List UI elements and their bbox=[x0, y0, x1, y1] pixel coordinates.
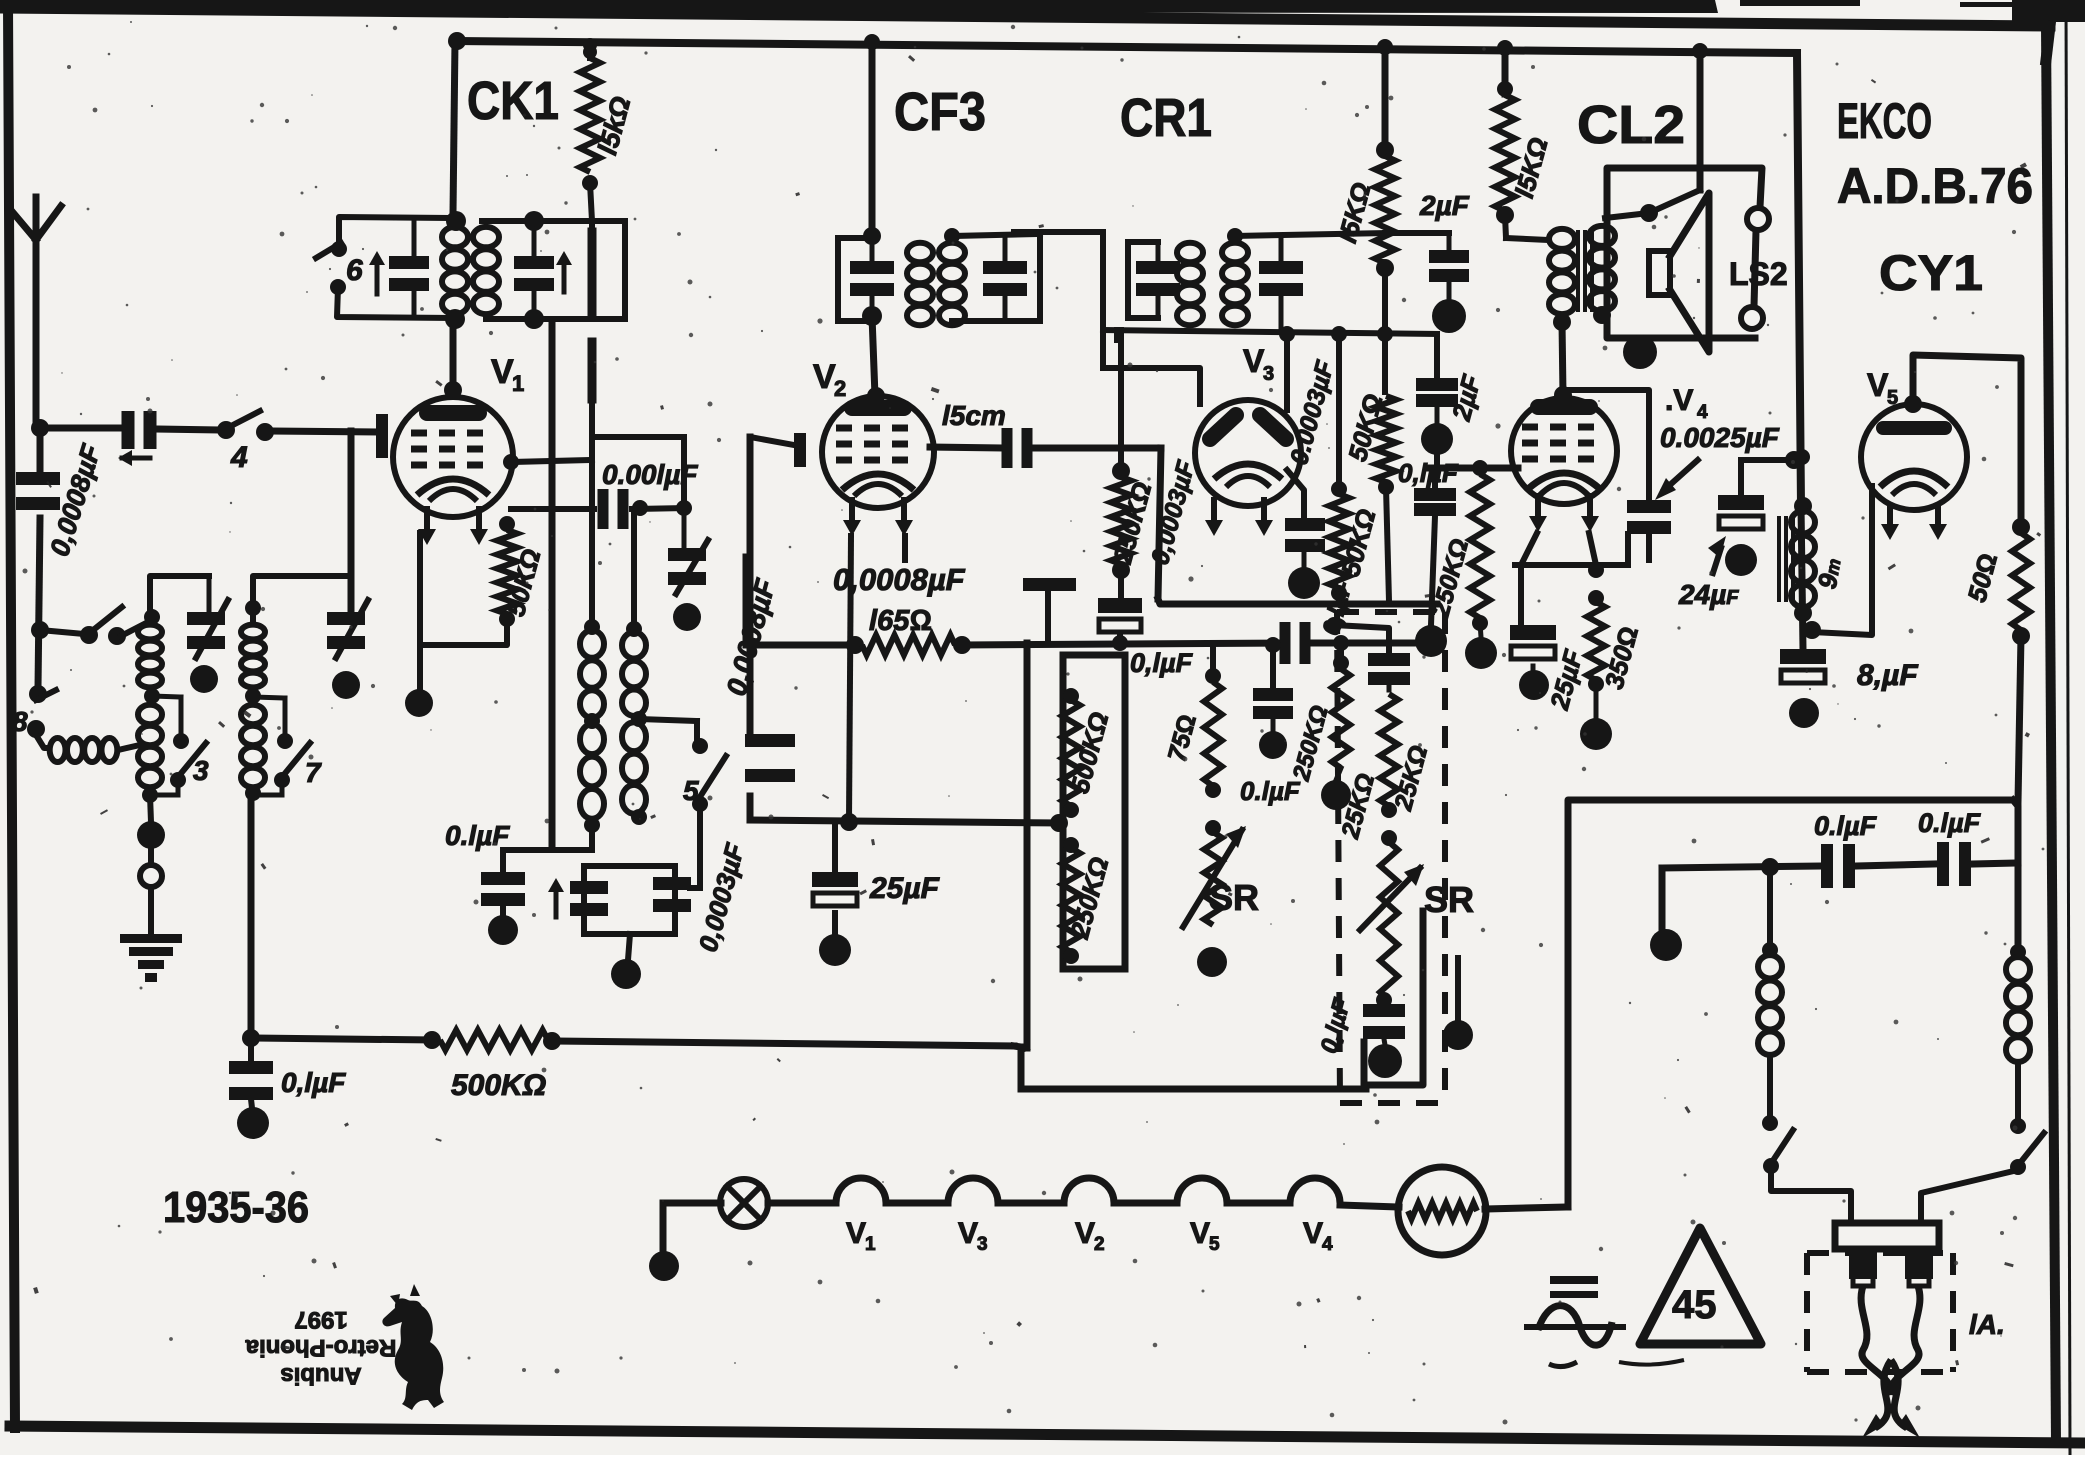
svg-text:lA.: lA. bbox=[1969, 1309, 2005, 1340]
svg-text:Anubis: Anubis bbox=[280, 1362, 361, 1389]
svg-text:2µF: 2µF bbox=[1419, 190, 1470, 221]
svg-text:2: 2 bbox=[1094, 1234, 1105, 1255]
svg-text:0,lµF: 0,lµF bbox=[1398, 458, 1459, 488]
svg-text:0.lµF: 0.lµF bbox=[445, 820, 510, 851]
svg-text:CL2: CL2 bbox=[1577, 95, 1685, 155]
svg-text:SR: SR bbox=[1209, 877, 1259, 918]
svg-text:EKCO: EKCO bbox=[1837, 93, 1932, 149]
svg-text:500KΩ: 500KΩ bbox=[451, 1069, 546, 1102]
svg-text:25µF: 25µF bbox=[869, 872, 940, 905]
svg-text:1935-36: 1935-36 bbox=[163, 1183, 309, 1232]
svg-text:LS2: LS2 bbox=[1729, 256, 1788, 292]
svg-text:4: 4 bbox=[1697, 402, 1708, 423]
svg-text:8,µF: 8,µF bbox=[1857, 659, 1918, 692]
svg-text:l5cm: l5cm bbox=[942, 400, 1006, 431]
svg-text:CR1: CR1 bbox=[1120, 88, 1212, 148]
svg-text:0,0008µF: 0,0008µF bbox=[833, 562, 966, 597]
svg-text:3: 3 bbox=[193, 755, 209, 786]
svg-text:CY1: CY1 bbox=[1879, 245, 1983, 301]
svg-text:5: 5 bbox=[683, 775, 699, 806]
svg-text:1997: 1997 bbox=[294, 1306, 347, 1333]
svg-text:.V: .V bbox=[1665, 384, 1693, 417]
svg-text:6: 6 bbox=[346, 254, 363, 287]
svg-text:V: V bbox=[1243, 343, 1265, 379]
svg-text:CK1: CK1 bbox=[467, 71, 559, 131]
svg-text:0,lµF: 0,lµF bbox=[1130, 648, 1194, 678]
svg-text:V: V bbox=[813, 358, 836, 396]
svg-text:0.lµF: 0.lµF bbox=[1240, 776, 1301, 806]
svg-text:1: 1 bbox=[512, 371, 524, 396]
svg-text:CF3: CF3 bbox=[894, 82, 986, 142]
svg-text:0,lµF: 0,lµF bbox=[281, 1067, 346, 1098]
svg-text:8: 8 bbox=[12, 706, 28, 737]
svg-text:SR: SR bbox=[1424, 879, 1474, 920]
svg-text:A.D.B.76: A.D.B.76 bbox=[1837, 158, 2033, 214]
svg-text:0.0025µF: 0.0025µF bbox=[1660, 422, 1780, 453]
svg-text:3: 3 bbox=[977, 1234, 988, 1255]
svg-text:0.lµF: 0.lµF bbox=[1918, 808, 1982, 838]
svg-text:V: V bbox=[846, 1217, 866, 1250]
svg-text:2: 2 bbox=[834, 376, 846, 401]
svg-text:45: 45 bbox=[1672, 1283, 1717, 1327]
svg-text:0.00lµF: 0.00lµF bbox=[602, 459, 698, 490]
svg-text:7: 7 bbox=[305, 757, 322, 788]
svg-text:V: V bbox=[1303, 1217, 1323, 1250]
svg-text:V: V bbox=[491, 353, 514, 391]
svg-text:0.lµF: 0.lµF bbox=[1814, 811, 1878, 841]
svg-text:4: 4 bbox=[1322, 1234, 1333, 1255]
svg-text:5: 5 bbox=[1209, 1234, 1220, 1255]
svg-text:V: V bbox=[1075, 1217, 1095, 1250]
svg-text:V: V bbox=[1190, 1217, 1210, 1250]
svg-text:V: V bbox=[958, 1217, 978, 1250]
svg-text:1: 1 bbox=[865, 1234, 876, 1255]
svg-text:l65Ω: l65Ω bbox=[869, 605, 932, 637]
svg-text:Retro-Phonia: Retro-Phonia bbox=[245, 1334, 396, 1361]
svg-text:3: 3 bbox=[1263, 363, 1274, 385]
svg-text:V: V bbox=[1867, 367, 1889, 403]
svg-text:4: 4 bbox=[230, 441, 248, 474]
